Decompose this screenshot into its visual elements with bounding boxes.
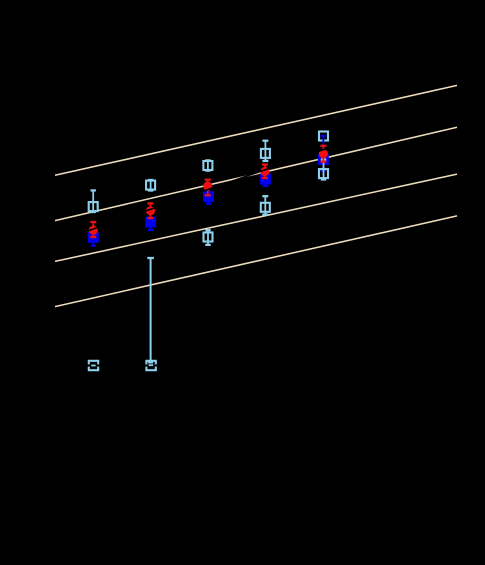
column 2: blue errorbar [148,214,153,230]
column 2: skyblue errorbar [148,180,153,191]
column 4: blue filled square marker [260,174,271,185]
column 2: red errorbar [148,203,154,218]
lower-middle point: skyblue open square marker with black x-errorbar [144,361,158,370]
column 2: skyblue open square marker [146,181,155,190]
column 5: skyblue open square marker (lower point) [319,169,328,178]
column 2: blue filled square marker [145,217,156,228]
black fit line (on top) [60,106,450,241]
column 3: blue errorbar [206,190,211,204]
column 3: red errorbar [205,180,211,196]
model line 1 (tan, top) [55,85,457,175]
column 1: blue errorbar [91,229,96,246]
column 1: blue filled square marker [88,232,99,243]
column 4: red errorbar [262,165,268,178]
column 2: red filled circle marker [146,206,155,215]
column 3: skyblue open square marker (upper point) [203,161,212,170]
column 3: skyblue errorbar (lower point) [205,230,210,245]
lower-left point: skyblue open square marker with black x-errorbar [87,361,101,370]
column 1: red errorbar [90,222,96,237]
column 5: blue errorbar (long) [321,136,326,171]
column 5: red filled circle marker [319,149,328,158]
column 3: red filled circle marker [203,182,212,191]
column 4: skyblue errorbar (upper point) [262,141,268,161]
column 1: red filled circle marker [89,226,98,235]
column 3: skyblue errorbar (upper point) [205,160,210,170]
column 4: blue errorbar [263,172,268,186]
column 4: skyblue errorbar (lower point) [262,196,268,214]
column 5: skyblue open square marker (upper point) [319,132,328,141]
column 5: red errorbar [320,146,326,162]
model line 4 (tan, bottom) [55,216,457,307]
lower-middle point: skyblue errorbar (long vertical) [147,258,154,364]
column 4: red filled circle marker [260,167,269,176]
column 1: skyblue open square marker [89,202,98,211]
model line 3 (tan) [55,174,457,261]
column 5: skyblue errorbar (lower point) [321,160,326,180]
column 3: skyblue open square marker (lower point) [204,233,213,242]
model line 2 (tan) [55,127,457,220]
column 1: skyblue errorbar [91,190,96,212]
column 5: blue filled square marker [318,154,329,165]
column 4: skyblue open square marker (upper point) [261,149,270,158]
column 3: blue filled square marker [203,191,214,202]
column 4: skyblue open square marker (lower point) [261,203,270,212]
